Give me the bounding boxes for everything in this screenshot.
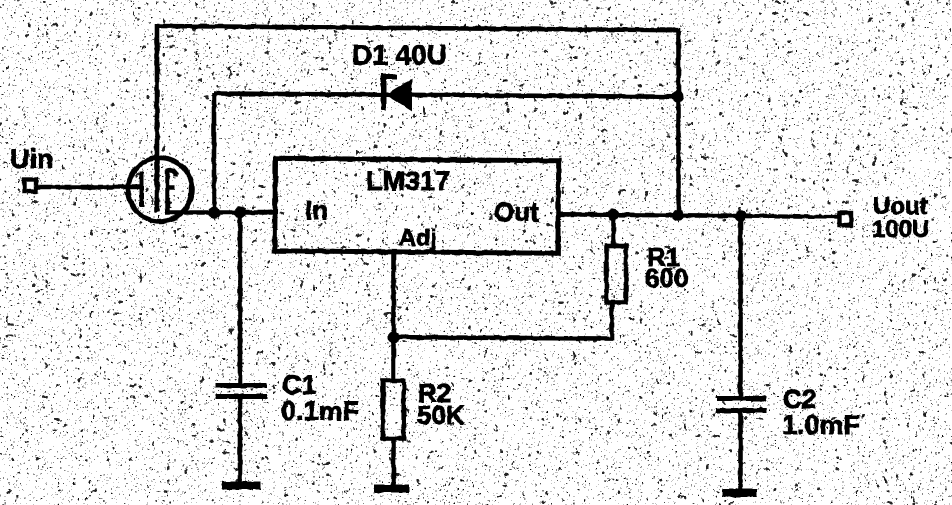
svg-text:In: In [305,195,328,225]
wire Adj pin down [391,253,396,380]
wire LM317 Out to Uout terminal [560,214,741,216]
svg-text:D1 40U: D1 40U [352,40,447,71]
wire R1 top branch [611,215,616,246]
svg-text:50K: 50K [417,400,465,430]
resistor R2 body [383,381,404,439]
wire R1 bottom to adj node [394,303,613,339]
transistor Q1 circle [128,158,192,222]
node diode rail meets right vertical [672,91,684,103]
node Adj/R1/R2 junction [388,332,400,344]
node at diode-rail left over main line [208,207,220,219]
wire right vertical from top rail to output line [676,28,681,216]
svg-text:100U: 100U [872,216,929,243]
svg-text:Out: Out [494,197,539,227]
wire R2 lower lead [391,440,396,488]
op-amp U1 LM317 box [275,158,559,253]
wire C2 node to Uout terminal [741,216,841,217]
wire diode rail [214,94,679,97]
wire C1 lower lead [238,396,243,485]
wire transistor output to LM317 In [165,210,274,215]
wire top rail [157,26,679,30]
wire C1 branch down [238,213,243,386]
transistor Q1 gate bar [139,172,144,207]
svg-text:1.0mF: 1.0mF [782,410,860,440]
node right vertical on output line [672,209,684,221]
ground below R2 [374,485,409,493]
terminal Uout square [840,213,852,225]
wire C2 lower lead [738,410,743,493]
wire Uin terminal to transistor gate [36,185,142,190]
capacitor C2 plates [716,399,768,411]
node C2 junction [735,210,747,222]
resistor R1 body [607,246,627,303]
svg-text:Uin: Uin [10,144,54,174]
transistor Q1 right electrode [166,170,176,213]
svg-text:Adj: Adj [399,225,437,251]
ground below C2 [722,489,757,497]
node C1 junction [234,207,246,219]
wire diode-rail left vertical down to node [212,93,217,213]
node R1 junction on output line [608,209,620,221]
diode D1 triangle [387,80,412,111]
wire C2 branch down [738,215,743,399]
diode D1 cathode bar [383,74,397,111]
capacitor C1 plates [216,386,268,397]
terminal Uin square [25,180,37,192]
svg-text:600: 600 [645,263,688,293]
svg-text:0.1mF: 0.1mF [281,396,359,426]
ground below C1 [222,482,260,490]
wire left vertical from top rail into transistor [155,24,160,212]
svg-text:LM317: LM317 [366,166,450,196]
